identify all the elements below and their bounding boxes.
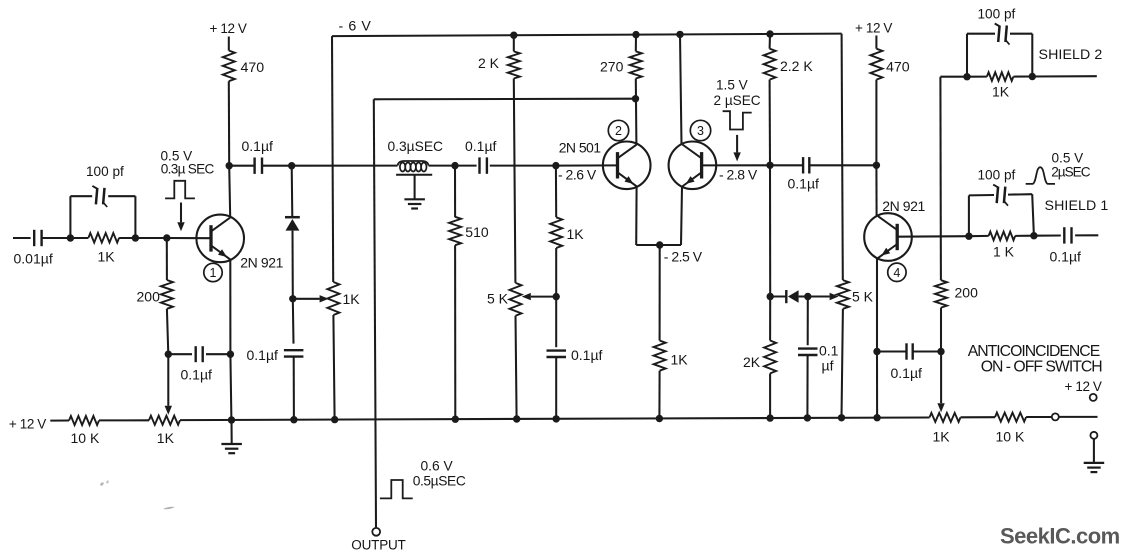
capacitor 0.1uf (mid coupling) xyxy=(478,157,480,173)
node emitter Q1 (230,354) xyxy=(227,351,234,358)
node wiper (293,299) xyxy=(289,295,296,302)
wire Q4 emitter to rail xyxy=(876,352,878,418)
wire shield2 left seg xyxy=(940,76,967,78)
wire +12V to R 470 xyxy=(228,37,230,51)
svg-text:2N 921: 2N 921 xyxy=(882,198,925,214)
svg-text:5 K: 5 K xyxy=(852,289,874,305)
wire 2.2K to base node xyxy=(769,80,771,166)
transistor Q1 2N921 xyxy=(196,215,244,263)
node common emitter (660,245) xyxy=(656,241,663,248)
node shield1 right xyxy=(1030,232,1037,239)
waveform 0.5V hump xyxy=(1026,167,1055,184)
svg-text:0.1µf: 0.1µf xyxy=(465,138,497,154)
wire Q2 emitter down xyxy=(635,186,637,245)
ground (under Q1 emitter) xyxy=(230,420,232,444)
wire shield2 cap riser left xyxy=(966,34,968,77)
resistor 1K (common emitter) xyxy=(654,341,666,371)
svg-text:470: 470 xyxy=(241,60,265,76)
node B (135,238) xyxy=(132,234,139,241)
wire diode to wiper node xyxy=(291,231,293,299)
resistor 2K (bottom) xyxy=(764,341,776,374)
capacitor 0.1uf (Q4 emitter) xyxy=(905,343,907,359)
switch pole contact xyxy=(1052,413,1059,420)
svg-text:1K: 1K xyxy=(671,352,689,368)
arrow to Q3 base xyxy=(736,135,738,153)
svg-text:0.1µf: 0.1µf xyxy=(1050,249,1082,265)
svg-text:1K: 1K xyxy=(933,429,951,445)
wire Q3 base to 2.2K line xyxy=(702,164,770,166)
node x294 rail xyxy=(290,416,297,423)
wire Q1 emitter to rail xyxy=(230,354,231,420)
wire cap to rail xyxy=(806,355,808,418)
wire switch arm xyxy=(1059,416,1097,418)
svg-text:0.1µf: 0.1µf xyxy=(891,365,923,381)
wire shield1 cap riser right xyxy=(1032,194,1034,236)
capacitor 100pf (shield2) xyxy=(998,26,999,43)
wire wiper node down to cap xyxy=(292,299,295,344)
resistor 1K (shield2) xyxy=(987,72,1014,81)
wire node C down to R 200 xyxy=(166,238,168,280)
wire wiper node to cap xyxy=(555,297,557,348)
node 5K right rail xyxy=(838,414,845,421)
wire R 1K to node B xyxy=(119,237,135,239)
svg-text:0.1µf: 0.1µf xyxy=(571,347,603,363)
wire node A to R 1K xyxy=(70,237,88,239)
diode CR1 (points up) xyxy=(285,216,300,219)
svg-text:- 2.5 V: - 2.5 V xyxy=(664,249,703,265)
capacitor 0.1uf (Q1 emitter bypass) xyxy=(194,346,196,362)
svg-text:0.1µf: 0.1µf xyxy=(788,176,820,192)
capacitor 0.1uf (x556) xyxy=(547,349,567,351)
svg-text:10 K: 10 K xyxy=(71,430,100,446)
svg-text:- 2.6 V: - 2.6 V xyxy=(558,166,597,182)
inductor delay line 0.3uSEC xyxy=(398,161,429,166)
node Q4 collector top (876,165) xyxy=(873,162,880,169)
wire diode node to 2K xyxy=(769,297,771,341)
resistor 1K pot (x334) xyxy=(327,282,339,315)
capacitor 0.1uf (x293) xyxy=(284,349,304,351)
wire 2.2K top lead xyxy=(769,34,771,49)
svg-text:2N 501: 2N 501 xyxy=(559,139,602,155)
wire 2K down to 5K pot xyxy=(514,79,516,283)
wire shield1 res leads xyxy=(969,235,989,237)
node (770,165) xyxy=(766,162,773,169)
node shield2 right xyxy=(1029,73,1036,80)
wire +12V right lead xyxy=(875,36,877,49)
svg-text:510: 510 xyxy=(465,224,489,240)
wire shield2 res leads xyxy=(967,76,987,78)
svg-text:+ 12 V: + 12 V xyxy=(9,416,46,431)
wire node E to cap 0.1uf xyxy=(455,165,477,167)
resistor 1K (input) xyxy=(88,233,119,243)
badge 4 xyxy=(888,263,906,281)
capacitor 100pf (shield1) xyxy=(997,187,998,204)
node Q4 emitter (877,352) xyxy=(873,348,880,355)
node R510 rail xyxy=(452,416,459,423)
wire cap to emitter node xyxy=(168,353,192,355)
wire node D down to diode xyxy=(291,166,294,218)
wire cap to node D xyxy=(262,165,292,167)
node Q3 collector (-6V rail) xyxy=(676,31,683,38)
node collector Q1 (229,166) xyxy=(226,162,233,169)
node C (167,238) xyxy=(163,234,170,241)
wire input cap to node A xyxy=(42,237,71,239)
svg-text:0.5 V: 0.5 V xyxy=(1052,150,1084,165)
wire 5K pot right to rail xyxy=(842,309,843,418)
wire plate to ground xyxy=(414,175,416,199)
svg-text:100 pf: 100 pf xyxy=(86,164,124,179)
svg-text:SeekIC.com: SeekIC.com xyxy=(1000,524,1120,549)
svg-text:2: 2 xyxy=(615,124,622,138)
svg-text:+ 12 V: + 12 V xyxy=(210,21,247,36)
badge 3 xyxy=(690,120,710,140)
wire 200-line arrow to 1K pot xyxy=(167,354,169,406)
resistor 10K (bottom left) xyxy=(69,416,99,425)
scan smudge 1 xyxy=(100,482,104,486)
svg-text:0.6 V: 0.6 V xyxy=(421,459,454,474)
wire emitter cap left xyxy=(877,350,907,352)
wire cap to rail xyxy=(293,357,295,420)
svg-text:0.01µf: 0.01µf xyxy=(14,251,53,267)
wire node F to R 1K xyxy=(555,166,557,218)
arrow to Q1 base xyxy=(180,203,182,223)
resistor 1K (mid) xyxy=(550,217,562,248)
svg-text:0.1: 0.1 xyxy=(819,343,839,359)
ground (delay line) xyxy=(404,198,425,200)
svg-text:µf: µf xyxy=(822,358,834,374)
svg-text:0.5µSEC: 0.5µSEC xyxy=(413,473,466,488)
wire shield1 out xyxy=(1075,234,1098,236)
wire parallel top-left riser xyxy=(69,196,71,238)
svg-text:+ 12 V: + 12 V xyxy=(1065,379,1102,394)
scan smudge 2 xyxy=(163,507,175,510)
wire Q3 collector up xyxy=(680,34,682,144)
capacitor 0.1uf (shield1 out) xyxy=(1063,227,1065,243)
wire Q1 collector up xyxy=(229,166,230,218)
svg-text:2.2 K: 2.2 K xyxy=(780,58,813,74)
waveform 0.6V pulse xyxy=(380,480,413,498)
capacitor 0.1uf (x808) xyxy=(798,347,818,349)
delay line lower plate xyxy=(396,174,432,176)
wire R 510 to rail xyxy=(454,245,456,419)
svg-text:270: 270 xyxy=(600,59,624,75)
wire y98 horizontal xyxy=(374,98,636,101)
wire shield2 cap top right xyxy=(1010,33,1032,35)
wire shield2 out xyxy=(1032,75,1097,77)
wire Q1 emitter down xyxy=(229,260,231,355)
node y98-collector Q2 xyxy=(632,95,639,102)
svg-text:1K: 1K xyxy=(98,249,116,265)
capacitor 0.1uf (Q1 coupling) xyxy=(253,158,255,174)
wire parallel top right seg xyxy=(108,195,135,197)
node 5K rail xyxy=(513,415,520,422)
svg-text:1K: 1K xyxy=(567,226,585,242)
svg-text:0.1µf: 0.1µf xyxy=(242,138,274,154)
wire 770 down to diode node xyxy=(769,165,771,296)
svg-text:1K: 1K xyxy=(343,291,361,307)
output terminal xyxy=(372,528,380,536)
wire node B to node C xyxy=(135,237,166,239)
svg-text:1 K: 1 K xyxy=(993,244,1015,260)
wire R200 to cap node xyxy=(167,309,168,354)
arrow to 1K pot (right) xyxy=(940,352,942,404)
badge 2 xyxy=(608,120,628,140)
resistor 200 (right) xyxy=(935,280,947,307)
arrow wiper to 5K (right) xyxy=(808,295,830,297)
resistor 1K pot (bottom right) xyxy=(930,413,961,422)
wire common emitter bar xyxy=(636,244,681,246)
svg-text:2 µSEC: 2 µSEC xyxy=(714,93,761,108)
wire -6V drop left (to 1K pot x333.6) xyxy=(332,36,333,282)
wire output vertical xyxy=(374,99,376,527)
wire delay line to node E xyxy=(429,165,455,167)
node D (292,166) xyxy=(288,162,295,169)
node F (556,166) xyxy=(552,162,559,169)
node shield1 left xyxy=(965,233,972,240)
node A (70,238) xyxy=(67,234,74,241)
wire 1K to rail xyxy=(658,371,660,419)
wire shield2 cap riser right xyxy=(1031,34,1033,77)
wire cap to rail xyxy=(555,357,557,419)
wire shield2 cap top left xyxy=(967,33,995,35)
resistor 470 (right) xyxy=(870,49,882,80)
svg-text:0.3µSEC: 0.3µSEC xyxy=(388,139,444,154)
svg-text:1.5 V: 1.5 V xyxy=(716,78,748,93)
arrow wiper 5K (from x556) xyxy=(531,296,556,298)
svg-text:- 6 V: - 6 V xyxy=(339,19,372,35)
wire shield1 cap riser left xyxy=(968,195,970,236)
wire 2K to rail xyxy=(769,373,771,418)
resistor 510 xyxy=(449,217,461,245)
node common emitter rail xyxy=(656,415,663,422)
wire shield2 corner down xyxy=(939,77,942,281)
wire -6V rail xyxy=(332,34,842,37)
capacitor 0.01uf (input) xyxy=(33,230,35,246)
wire cap to collector node xyxy=(809,164,876,166)
wire input lead xyxy=(13,237,31,239)
resistor 1K (shield1) xyxy=(989,232,1016,241)
wire parallel top left seg xyxy=(70,195,92,197)
switch contact +12V xyxy=(1090,394,1097,401)
ground (switch) xyxy=(1084,462,1105,464)
svg-text:+ 12 V: + 12 V xyxy=(855,21,892,36)
svg-text:0.1µf: 0.1µf xyxy=(247,347,279,363)
wire emitter cap right xyxy=(913,350,941,352)
resistor 2K (top) xyxy=(508,51,520,78)
node Q1 emitter rail xyxy=(228,416,235,423)
waveform 1.5V inverted pulse xyxy=(723,111,752,129)
wire Q4 collector up xyxy=(875,165,877,216)
wire 470 to collector node xyxy=(228,81,230,166)
wire 2K top lead xyxy=(513,35,515,51)
wire shield1 cap top left xyxy=(969,194,994,196)
arrow wiper to 1K pot xyxy=(293,298,320,300)
svg-text:2N 921: 2N 921 xyxy=(240,254,283,270)
svg-text:200: 200 xyxy=(137,289,161,305)
svg-text:470: 470 xyxy=(886,60,910,76)
wire Q4 base to shield node xyxy=(897,235,969,238)
resistor 5K pot (right) xyxy=(837,280,849,309)
transistor Q4 2N921 xyxy=(864,213,912,261)
wire switch ground lead xyxy=(1093,439,1095,463)
node x808 rail xyxy=(804,414,811,421)
wire collector node to cap xyxy=(229,165,254,167)
wire diode node down to cap xyxy=(807,297,809,346)
svg-text:10 K: 10 K xyxy=(996,429,1025,445)
node 1K pot rail xyxy=(331,416,338,423)
svg-text:SHIELD 2: SHIELD 2 xyxy=(1039,47,1103,63)
svg-text:1: 1 xyxy=(210,266,217,280)
wire rail to switch xyxy=(1026,416,1051,418)
svg-text:2K: 2K xyxy=(743,354,761,370)
wire rail to 10K right xyxy=(961,416,996,418)
wire node E to R 510 xyxy=(454,166,456,218)
wire 5K pot to rail xyxy=(516,316,517,419)
wire Q3 emitter down xyxy=(681,186,682,245)
node 2.2K top (-6V rail) xyxy=(766,30,773,37)
node 270 top (-6V rail) xyxy=(632,31,639,38)
svg-text:0.1µf: 0.1µf xyxy=(181,367,213,383)
resistor 270 xyxy=(630,51,642,78)
transistor Q2 2N501 xyxy=(603,142,651,190)
node x556 rail xyxy=(553,415,560,422)
switch contact ground xyxy=(1090,432,1097,439)
wire 200 to cap node xyxy=(940,308,942,352)
wire R1K to wiper node xyxy=(555,248,557,297)
wire node D to delay line xyxy=(292,165,398,167)
svg-text:1K: 1K xyxy=(157,430,175,446)
wire rail lead-in xyxy=(50,419,69,421)
transistor Q3 (mirrored) xyxy=(669,142,717,190)
wire 1K pot to rail xyxy=(333,315,334,420)
wire common emitter to 1K xyxy=(659,245,661,341)
wire bottom rail main xyxy=(180,418,930,421)
wire shield1 cap top right xyxy=(1008,193,1032,195)
svg-text:ON - OFF SWITCH: ON - OFF SWITCH xyxy=(981,359,1103,376)
badge 1 xyxy=(204,263,222,281)
diode CR2 (points left) xyxy=(770,295,786,297)
svg-text:3: 3 xyxy=(697,124,704,138)
svg-text:2µSEC: 2µSEC xyxy=(1051,165,1091,180)
node wiper-1K junction (556,297) xyxy=(553,293,560,300)
wire shield1 to cap xyxy=(1034,234,1061,236)
waveform 0.5V pulse xyxy=(165,181,195,199)
svg-text:0.3µ SEC: 0.3µ SEC xyxy=(161,161,215,176)
svg-text:100 pf: 100 pf xyxy=(978,7,1016,22)
wire cap to node F xyxy=(490,165,556,167)
node (168,354) xyxy=(165,351,172,358)
svg-text:- 2.8 V: - 2.8 V xyxy=(719,166,758,182)
wire node F to Q2 base xyxy=(556,164,618,166)
wire 470 to collector node xyxy=(875,80,877,166)
node shield2 left xyxy=(963,73,970,80)
svg-text:5 K: 5 K xyxy=(487,291,509,307)
node Q4 emitter rail xyxy=(873,414,880,421)
wire node C to Q1 base xyxy=(167,237,211,239)
svg-text:SHIELD 1: SHIELD 1 xyxy=(1045,198,1109,214)
node (941,352) xyxy=(937,348,944,355)
resistor 200 (left) xyxy=(161,280,173,309)
resistor 10K (bottom right) xyxy=(995,413,1026,422)
svg-text:100 pf: 100 pf xyxy=(978,168,1016,183)
resistor 470 (left, x229) xyxy=(223,51,235,82)
wire Q4 emitter down xyxy=(876,258,878,351)
svg-text:2 K: 2 K xyxy=(478,55,500,71)
resistor 1K pot (bottom left) xyxy=(149,416,180,425)
wire parallel right riser xyxy=(134,196,136,238)
wire rail 10K to 1K pot xyxy=(99,419,149,421)
svg-text:200: 200 xyxy=(955,285,979,301)
node diode left (770,297) xyxy=(767,293,774,300)
svg-text:4: 4 xyxy=(893,266,900,280)
wire -6V drop right xyxy=(842,34,843,281)
resistor 5K pot (mid) xyxy=(510,283,522,316)
capacitor 100pf (input pair) xyxy=(96,188,97,205)
node diode right (808,297) xyxy=(804,293,811,300)
svg-text:ANTICOINCIDENCE: ANTICOINCIDENCE xyxy=(968,343,1100,360)
node 2K rail xyxy=(766,414,773,421)
wire 270 to Q2 collector xyxy=(635,79,638,145)
resistor 2.2K xyxy=(764,49,776,80)
capacitor 0.1uf (Q3->Q4 coupling) xyxy=(802,157,804,173)
node 2K top (-6V rail) xyxy=(510,32,517,39)
wire base node to cap xyxy=(770,164,803,166)
svg-text:1K: 1K xyxy=(992,84,1010,100)
node E (455,166) xyxy=(451,162,458,169)
svg-text:OUTPUT: OUTPUT xyxy=(351,537,405,552)
wire 270 top lead xyxy=(635,35,637,52)
